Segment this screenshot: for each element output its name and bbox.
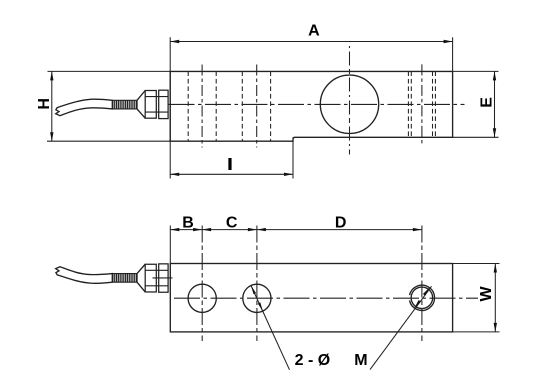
- gland nut 2: [159, 90, 168, 118]
- dimension H: [51, 71, 53, 141]
- svg-text:E: E: [478, 97, 495, 108]
- wire: top edge extension right for W: [453, 263, 500, 265]
- M hole hidden thread lines: [408, 71, 435, 137]
- leader 2-diameter: [251, 286, 290, 370]
- cable assembly side view: [56, 90, 168, 118]
- wire: left edge extension (A above, I below): [169, 37, 171, 178]
- dimension E: [494, 71, 496, 137]
- svg-text:C: C: [226, 214, 238, 231]
- hole 1 circle (plan): [188, 284, 216, 312]
- gland cone: [137, 91, 145, 119]
- M hole thread arc (plan): [410, 285, 435, 310]
- hole 1 centerline: [201, 65, 203, 148]
- dimension B C D line: [170, 229, 422, 231]
- svg-text:D: D: [335, 214, 347, 231]
- wire: left edge extension up for B: [169, 226, 171, 264]
- M hole inner circle (plan): [411, 287, 433, 309]
- hole 1 hidden lines: [188, 71, 216, 141]
- wire: bottom edge extension right for W: [453, 331, 500, 333]
- cable assembly plan view (mirrored): [56, 264, 168, 292]
- hole 1 centerline (plan): [201, 226, 203, 342]
- svg-text:W: W: [478, 285, 495, 301]
- gland nut 1: [145, 91, 156, 119]
- dimension I: [170, 173, 293, 175]
- hole 2 centerline (plan): [256, 226, 258, 342]
- svg-text:M: M: [354, 352, 367, 369]
- hole 2 centerline: [256, 65, 258, 148]
- wire: right edge extension up to A: [452, 37, 454, 71]
- strain relief ribs: [112, 100, 137, 109]
- wire: bottom edge extension right for E: [453, 136, 499, 138]
- plan rectangle: [170, 264, 452, 332]
- beam horizontal centerline (side view): [169, 103, 465, 105]
- wire: step extension down for I: [292, 137, 294, 178]
- M hole centerline (side view): [421, 64, 423, 146]
- beam outline side view: [170, 71, 452, 141]
- svg-text:A: A: [308, 22, 320, 39]
- svg-text:B: B: [182, 214, 194, 231]
- dimension A: [170, 41, 452, 43]
- hole 2 circle (plan): [243, 284, 271, 312]
- gland chamfer lines: [145, 97, 168, 113]
- svg-text:I: I: [228, 157, 232, 174]
- cable: [56, 99, 113, 116]
- circle vertical centerline: [349, 46, 351, 155]
- leader M: [370, 286, 432, 369]
- svg-text:2 - Ø: 2 - Ø: [295, 352, 331, 369]
- dimension W: [494, 264, 496, 332]
- gland stub centerline (plan): [153, 277, 173, 279]
- loading hole circle: [320, 75, 378, 133]
- hole 2 hidden lines: [242, 71, 270, 141]
- wire: top edge extension right for E: [453, 70, 499, 72]
- wire: bottom edge extension left for H: [47, 140, 170, 142]
- M hole centerline (plan): [421, 226, 423, 342]
- svg-text:H: H: [36, 98, 53, 110]
- plan horizontal centerline: [174, 297, 478, 299]
- wire: top edge extension left for H: [48, 70, 171, 72]
